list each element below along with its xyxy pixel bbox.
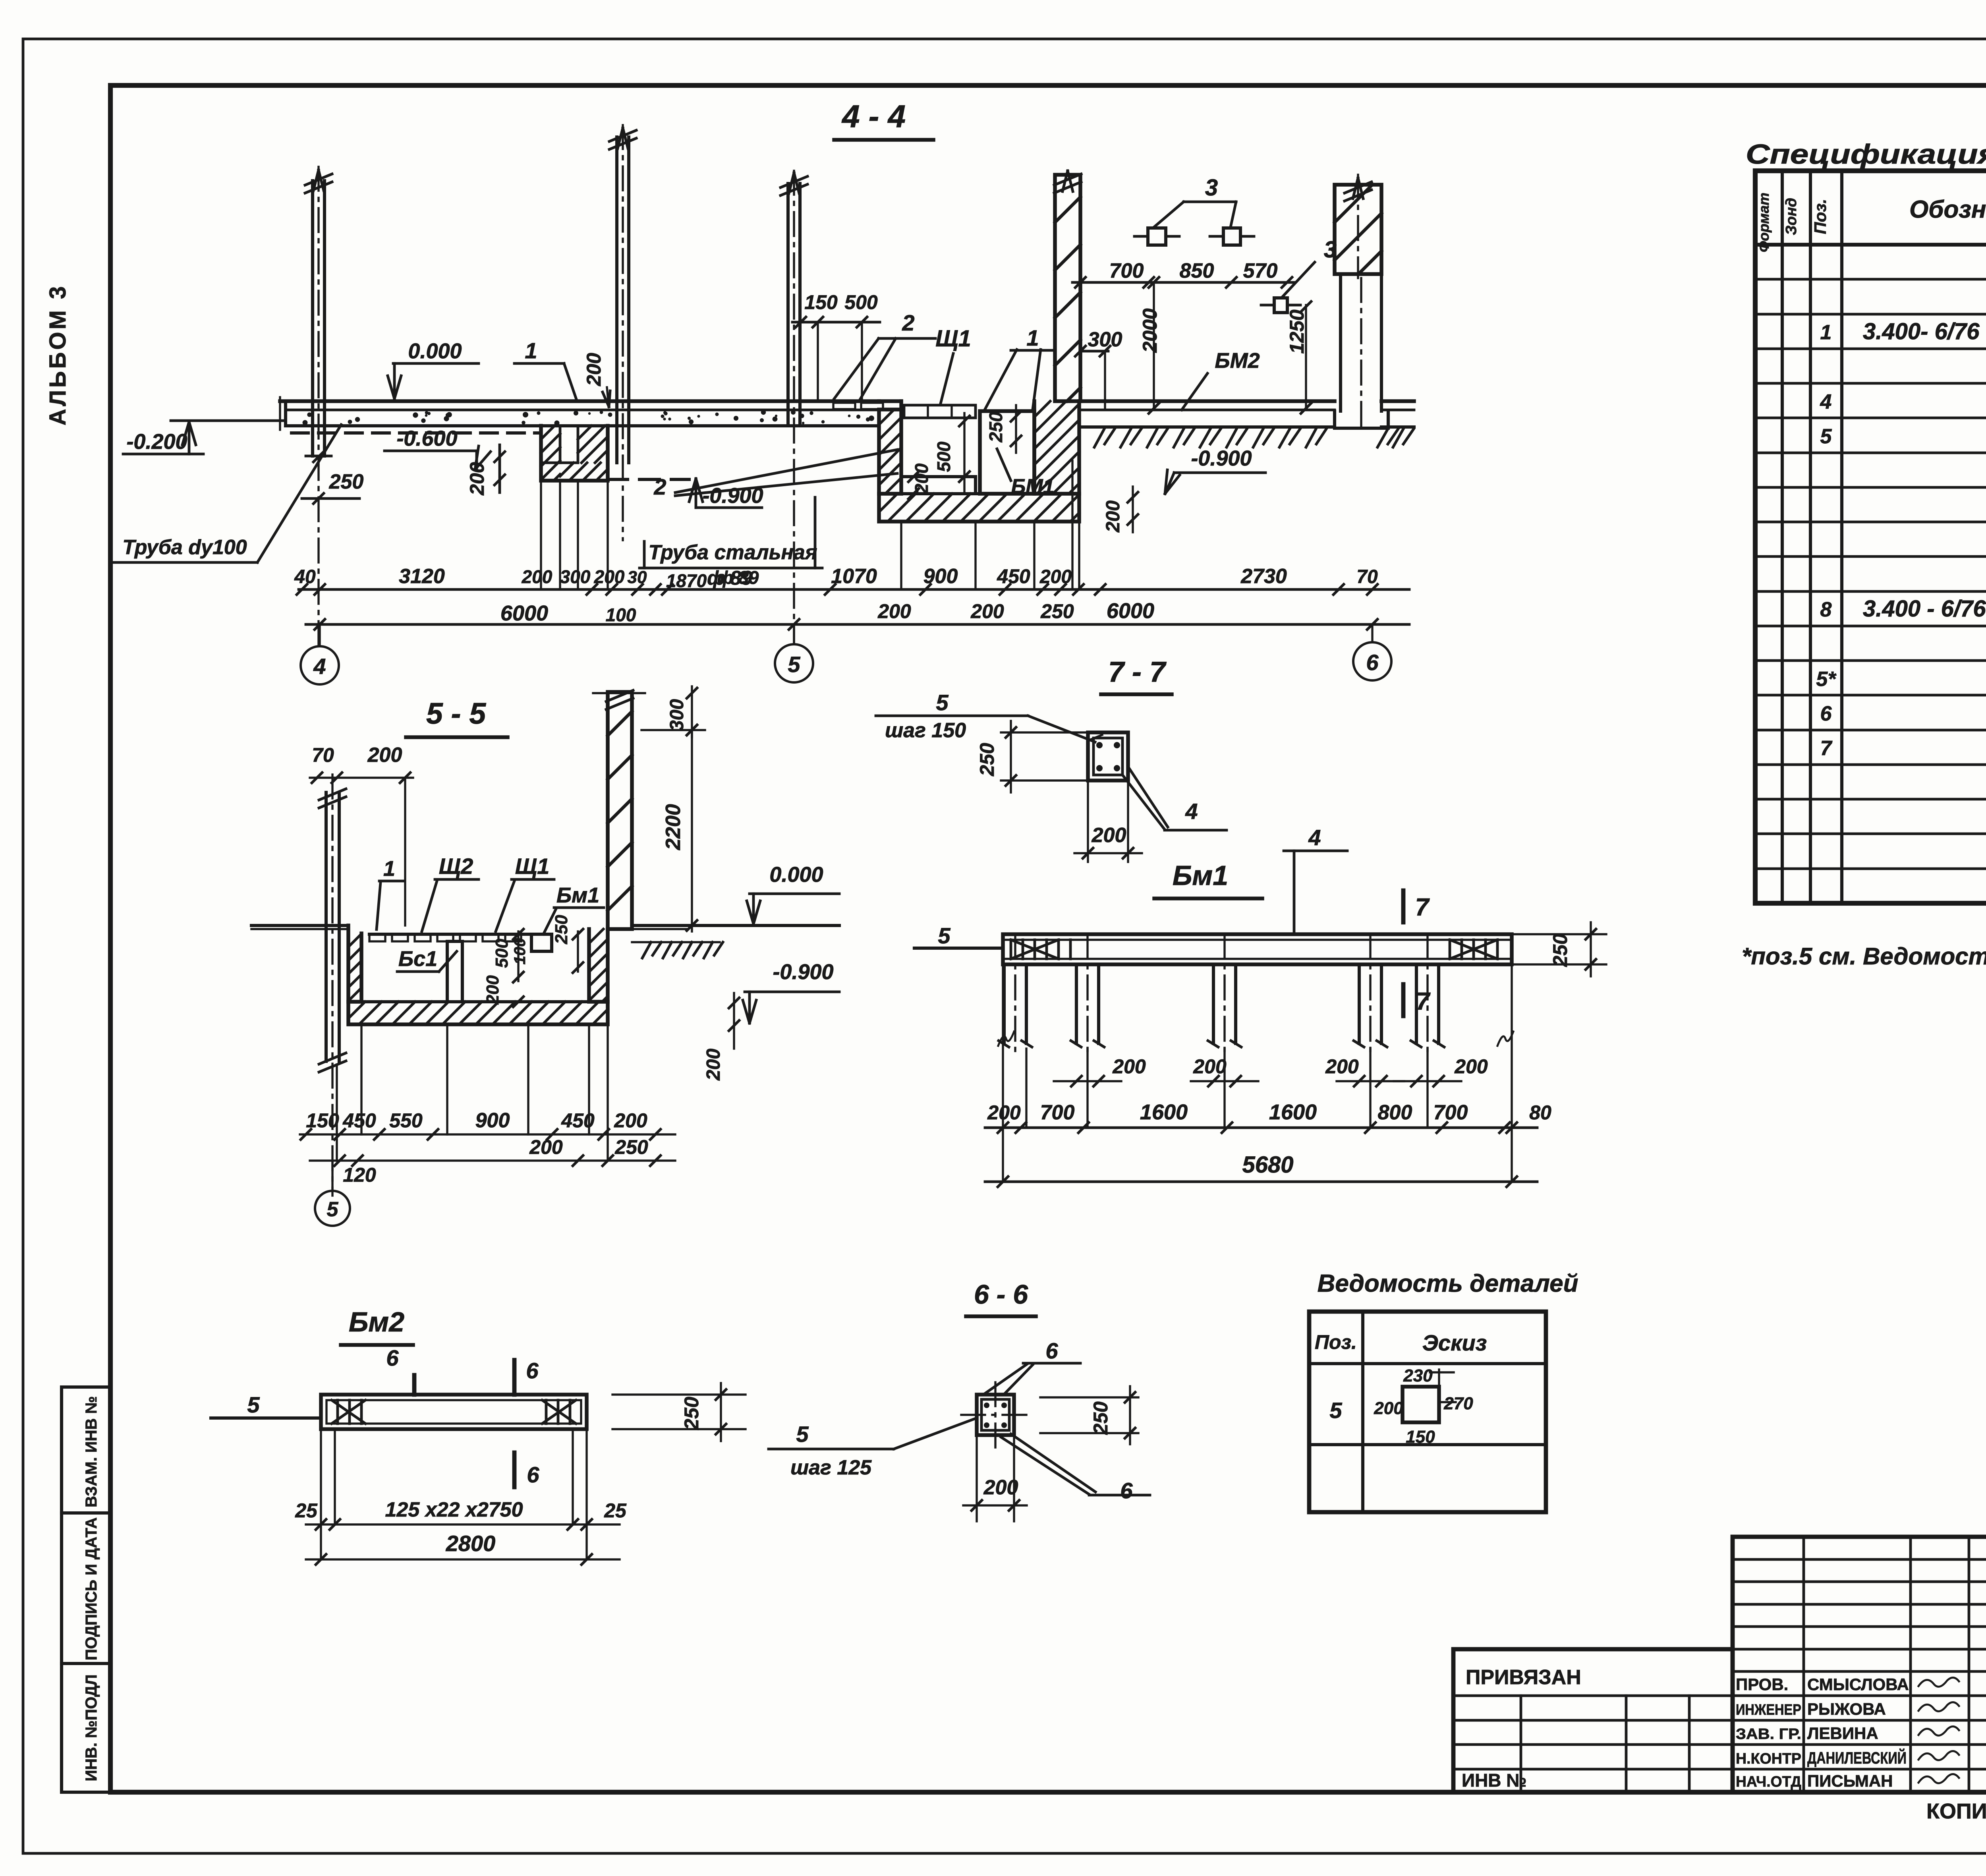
svg-text:150: 150 xyxy=(1406,1427,1435,1447)
floor slab bottom line (right room) xyxy=(1079,425,1335,429)
floor slab surface line (left) xyxy=(286,409,879,412)
svg-text:ПОДПИСЬ И ДАТА: ПОДПИСЬ И ДАТА xyxy=(83,1517,100,1660)
svg-text:АЛЬБОМ 3: АЛЬБОМ 3 xyxy=(45,284,71,425)
extension line right room xyxy=(1071,461,1073,589)
svg-text:8: 8 xyxy=(1820,598,1832,621)
svg-text:200: 200 xyxy=(466,462,488,496)
svg-text:0.000: 0.000 xyxy=(408,339,462,363)
foundation pit 1 hatch right xyxy=(578,426,591,439)
foundation pit 1 hatch bottom xyxy=(560,463,574,476)
stirrup box 7-7 rebar dots xyxy=(1096,742,1103,748)
svg-text:270: 270 xyxy=(1443,1394,1473,1413)
svg-text:ф 89: ф 89 xyxy=(717,567,759,588)
section mark 6 top second xyxy=(512,1360,517,1395)
svg-text:ДАНИЛЕВСКИЙ: ДАНИЛЕВСКИЙ xyxy=(1807,1748,1907,1767)
svg-text:100: 100 xyxy=(511,938,529,965)
parts list header line xyxy=(1309,1362,1546,1365)
signature squiggle 4 xyxy=(1918,1751,1959,1760)
right wall upper hatched part xyxy=(1335,185,1381,274)
svg-text:-0.200: -0.200 xyxy=(126,430,187,454)
beam BM1 anchor leg 4 xyxy=(1358,964,1361,1043)
svg-text:850: 850 xyxy=(1180,259,1214,282)
svg-text:6: 6 xyxy=(386,1345,399,1370)
svg-text:1600: 1600 xyxy=(1140,1100,1188,1124)
svg-text:200: 200 xyxy=(1374,1399,1403,1418)
svg-text:Труба стальная: Труба стальная xyxy=(649,541,817,564)
underground level -0.600 dashed line xyxy=(292,431,541,435)
svg-text:250: 250 xyxy=(1040,600,1074,622)
svg-text:80: 80 xyxy=(1529,1101,1551,1124)
svg-text:2000: 2000 xyxy=(1139,308,1161,353)
svg-text:125 x22 x2750: 125 x22 x2750 xyxy=(385,1498,523,1521)
svg-text:200: 200 xyxy=(522,566,553,587)
section 5-5 right wall xyxy=(608,692,632,929)
svg-text:БМ1: БМ1 xyxy=(1011,475,1054,498)
svg-text:ИНВ. №ПОДЛ: ИНВ. №ПОДЛ xyxy=(83,1674,100,1781)
title block left section frame xyxy=(1453,1649,1733,1792)
svg-text:5: 5 xyxy=(788,652,800,677)
axis circle 4 xyxy=(301,646,339,684)
svg-text:200: 200 xyxy=(594,566,625,587)
stirrup box 6-6 outer xyxy=(977,1395,1014,1435)
section 5-5 pit bottom slab xyxy=(348,1002,608,1024)
svg-text:1: 1 xyxy=(383,857,395,881)
beam BM2 outline xyxy=(321,1395,587,1429)
svg-text:5: 5 xyxy=(247,1392,260,1417)
svg-text:5: 5 xyxy=(1329,1398,1342,1423)
axis extension to circle 6 xyxy=(1371,624,1373,642)
svg-text:СМЫСЛОВА: СМЫСЛОВА xyxy=(1807,1675,1909,1694)
column section 5-5 xyxy=(325,792,328,1061)
section mark 7 bottom xyxy=(1401,984,1406,1016)
BM1 main dim chain xyxy=(985,1126,1537,1129)
BM1 overall dim 5680 xyxy=(985,1180,1537,1183)
svg-text:КОПИРОВАЛ: КОРШУНОВА: КОПИРОВАЛ: КОРШУНОВА xyxy=(1926,1799,1986,1823)
svg-text:200: 200 xyxy=(367,744,402,767)
svg-text:2200: 2200 xyxy=(662,804,685,850)
svg-text:ИНВ №: ИНВ № xyxy=(1462,1770,1527,1791)
svg-text:200: 200 xyxy=(970,600,1004,622)
section 5-5 dim chain 1 xyxy=(300,1133,675,1135)
svg-text:570: 570 xyxy=(1243,259,1278,282)
svg-text:2: 2 xyxy=(902,310,914,335)
column axis 5 centerline xyxy=(793,171,795,643)
column axis 4 top arrow xyxy=(313,170,319,191)
title block signature rows xyxy=(1733,1694,1986,1697)
svg-text:6000: 6000 xyxy=(500,601,548,625)
specification table vertical lines xyxy=(1781,171,1784,903)
right wall axis arrow xyxy=(1353,178,1358,199)
svg-text:0.000: 0.000 xyxy=(769,863,823,887)
svg-text:300: 300 xyxy=(667,699,688,731)
svg-text:ПИСЬМАН: ПИСЬМАН xyxy=(1807,1772,1893,1790)
svg-text:4: 4 xyxy=(1820,390,1832,413)
svg-text:3120: 3120 xyxy=(399,565,445,588)
svg-text:25: 25 xyxy=(604,1499,627,1522)
beam BM1 anchor leg 5 xyxy=(1415,964,1418,1043)
svg-text:200: 200 xyxy=(911,463,932,494)
right wall footing xyxy=(1335,411,1388,428)
svg-text:6: 6 xyxy=(527,1462,539,1487)
svg-text:200: 200 xyxy=(1092,824,1126,847)
axis extension to circle 4 xyxy=(319,624,321,646)
title block central verticals xyxy=(1802,1537,1805,1792)
svg-text:250: 250 xyxy=(614,1136,648,1158)
signature squiggle 5 xyxy=(1918,1774,1959,1783)
svg-text:Бс1: Бс1 xyxy=(398,947,437,971)
svg-text:5: 5 xyxy=(327,1198,339,1221)
axis circle 6 xyxy=(1353,642,1391,680)
section cut line 5 on BM1 xyxy=(914,947,1003,950)
ground hatch right of pit (5-5) xyxy=(642,942,651,958)
section mark 7 top xyxy=(1401,891,1406,922)
svg-text:300: 300 xyxy=(560,566,591,587)
svg-text:200: 200 xyxy=(483,975,502,1005)
mid wall on axis between 5 and 6 xyxy=(1055,175,1080,401)
svg-text:Бм2: Бм2 xyxy=(349,1306,404,1337)
svg-text:900: 900 xyxy=(475,1109,510,1132)
svg-text:900: 900 xyxy=(923,565,958,588)
right wall lower part xyxy=(1339,274,1342,411)
extension lines under pit 1 xyxy=(540,481,542,589)
svg-text:6: 6 xyxy=(1120,1478,1133,1503)
svg-text:40: 40 xyxy=(294,566,316,587)
section cut line 5 on BM2 xyxy=(211,1416,321,1420)
column 2 centerline xyxy=(622,125,624,540)
section 5-5 pit left wall xyxy=(348,925,361,1002)
svg-text:5: 5 xyxy=(938,923,950,948)
svg-text:Поз.: Поз. xyxy=(1315,1331,1357,1353)
section 5-5 pit interior bottom xyxy=(361,1000,589,1003)
svg-text:200: 200 xyxy=(1454,1055,1488,1078)
beam BM1 anchor leg 1 xyxy=(1003,964,1006,1043)
svg-text:500: 500 xyxy=(933,441,954,472)
floor slab bottom line (left) xyxy=(286,424,879,427)
svg-text:250: 250 xyxy=(552,915,571,945)
axis circle 5 (section 5-5) xyxy=(331,1161,333,1191)
ground hatch under right room floor xyxy=(1094,429,1104,447)
section 5-5 inner wall Bs1 xyxy=(446,941,449,1002)
beam BM1 right end stirrups xyxy=(1449,940,1451,959)
svg-text:200: 200 xyxy=(987,1101,1021,1124)
section 5-5 ext lines down xyxy=(336,1065,338,1161)
signature squiggle 3 xyxy=(1918,1726,1959,1735)
svg-text:2730: 2730 xyxy=(1240,565,1287,588)
svg-text:шаг 125: шаг 125 xyxy=(790,1456,872,1479)
svg-text:70: 70 xyxy=(1356,566,1378,587)
svg-text:200: 200 xyxy=(1103,500,1124,533)
svg-text:30: 30 xyxy=(628,568,647,587)
section 4-4 dim chain line 1 xyxy=(299,588,1409,591)
beam BM1 inner top line xyxy=(1003,939,1512,941)
svg-text:ИНЖЕНЕР: ИНЖЕНЕР xyxy=(1736,1702,1801,1718)
svg-text:230: 230 xyxy=(1403,1366,1433,1385)
section 5-5 formwork row xyxy=(369,933,528,936)
beam BM1 anchor leg 3 xyxy=(1212,964,1215,1043)
svg-text:Поз.: Поз. xyxy=(1811,199,1830,234)
svg-text:150: 150 xyxy=(306,1109,339,1132)
svg-text:5 - 5: 5 - 5 xyxy=(426,697,486,730)
svg-text:6: 6 xyxy=(526,1358,539,1383)
svg-text:4: 4 xyxy=(1308,825,1321,850)
svg-text:100: 100 xyxy=(606,605,636,625)
column on axis 4 xyxy=(311,181,314,456)
svg-text:800: 800 xyxy=(1378,1101,1412,1124)
svg-text:450: 450 xyxy=(997,565,1030,587)
svg-text:5: 5 xyxy=(796,1422,809,1447)
floor slab top line (right room) xyxy=(1079,399,1335,403)
svg-text:6000: 6000 xyxy=(1107,599,1154,623)
specification table row lines xyxy=(1755,278,1986,281)
svg-text:5680: 5680 xyxy=(1242,1152,1293,1178)
parts list column divider xyxy=(1361,1312,1364,1512)
svg-text:6: 6 xyxy=(1820,702,1832,725)
svg-text:2800: 2800 xyxy=(446,1531,496,1556)
column axis 4 centerline xyxy=(317,167,319,647)
svg-text:6: 6 xyxy=(1045,1338,1058,1363)
specification table outer frame xyxy=(1755,171,1986,903)
svg-text:200: 200 xyxy=(529,1136,563,1158)
stirrup box 7-7 inner xyxy=(1093,738,1122,775)
beam BM1 inner bottom line xyxy=(1003,958,1512,960)
pit 2 left wall xyxy=(879,401,901,494)
svg-text:200: 200 xyxy=(1193,1055,1227,1078)
svg-text:ПРОВ.: ПРОВ. xyxy=(1736,1675,1788,1694)
parts list row line xyxy=(1309,1443,1546,1446)
section 5-5 floor line right xyxy=(632,924,839,927)
svg-text:250: 250 xyxy=(976,743,998,777)
svg-text:5*: 5* xyxy=(1816,668,1837,691)
section 5-5 dim chain 2 xyxy=(310,1159,675,1161)
svg-text:500: 500 xyxy=(492,939,512,968)
title block upper rows xyxy=(1733,1558,1986,1561)
svg-text:3.400 - 6/76: 3.400 - 6/76 xyxy=(1863,596,1986,622)
left stamp column frame xyxy=(62,1387,110,1792)
svg-text:700: 700 xyxy=(1433,1101,1468,1124)
svg-text:200: 200 xyxy=(1325,1055,1359,1078)
svg-text:200: 200 xyxy=(583,353,605,386)
BM2 dim chain 1 xyxy=(306,1523,620,1525)
pit 2 left wall top edge xyxy=(879,399,901,403)
beam BM1 cross-section in pit 2 xyxy=(980,411,1034,494)
section mark 6 bottom xyxy=(512,1453,517,1487)
BM2 dim chain 2 xyxy=(306,1558,620,1560)
svg-text:Бм1: Бм1 xyxy=(1173,860,1228,891)
svg-text:БМ2: БМ2 xyxy=(1215,349,1260,373)
svg-text:Щ1: Щ1 xyxy=(935,326,971,352)
left stamp divider 1 xyxy=(62,1511,110,1515)
svg-text:250: 250 xyxy=(680,1397,703,1430)
svg-text:*поз.5 см. Ведомость деталей н: *поз.5 см. Ведомость деталей на данном л… xyxy=(1742,943,1986,970)
svg-text:1: 1 xyxy=(1820,321,1832,344)
svg-text:ЗАВ. ГР.: ЗАВ. ГР. xyxy=(1736,1726,1801,1743)
embedded plate 3 (third) xyxy=(1274,298,1287,313)
svg-text:Зонд: Зонд xyxy=(1783,198,1800,235)
svg-text:4 - 4: 4 - 4 xyxy=(841,99,906,134)
stirrup box 7-7 corner mark xyxy=(1090,735,1102,740)
extension lines under pit 2 xyxy=(900,522,902,589)
svg-text:Ведомость деталей: Ведомость деталей xyxy=(1318,1270,1578,1297)
svg-text:2: 2 xyxy=(653,474,666,499)
parts list sketch rectangle xyxy=(1403,1387,1439,1422)
column axis 5 (section 5-5) centerline xyxy=(331,775,333,1196)
svg-text:300: 300 xyxy=(1088,328,1122,351)
axis extension to circle 5 xyxy=(793,624,795,644)
stirrup box 6-6 centerlines xyxy=(994,1382,996,1450)
svg-text:7: 7 xyxy=(1820,737,1833,760)
beam BM2 inner rect xyxy=(326,1400,581,1424)
svg-text:Щ2: Щ2 xyxy=(439,854,473,879)
formwork joint marks on floor xyxy=(833,403,855,409)
svg-text:500: 500 xyxy=(844,291,878,313)
BM1 ext lines with breaks xyxy=(1025,1049,1027,1128)
label 2 lower leaders xyxy=(675,450,897,493)
embedded plate 3 (second) xyxy=(1223,228,1240,245)
ground edge lines (5-5) xyxy=(632,941,720,943)
svg-text:Н.КОНТР: Н.КОНТР xyxy=(1736,1750,1801,1767)
steel pipe axis dash line xyxy=(608,478,689,481)
pit 2 inner ledge xyxy=(901,475,976,478)
svg-text:РЫЖОВА: РЫЖОВА xyxy=(1807,1700,1886,1718)
beam BM1 left end stirrups xyxy=(1010,940,1012,959)
svg-text:Бм1: Бм1 xyxy=(556,883,599,907)
svg-text:шаг 150: шаг 150 xyxy=(885,719,966,742)
embedded plate 3 (first) xyxy=(1148,228,1166,245)
beam BM2 right end stirrups xyxy=(545,1400,548,1424)
pit 2 right wall xyxy=(1034,401,1079,494)
svg-text:450: 450 xyxy=(561,1109,595,1132)
floor slab concrete dots (left) xyxy=(663,411,667,414)
svg-text:Труба dу100: Труба dу100 xyxy=(122,536,247,559)
svg-text:450: 450 xyxy=(342,1109,376,1132)
beam BM1 outline xyxy=(1003,934,1512,964)
svg-text:120: 120 xyxy=(343,1164,376,1186)
floor slab surface line (right room) xyxy=(1079,409,1335,412)
svg-text:1: 1 xyxy=(1026,325,1039,350)
stirrup box 6-6 rebar dots xyxy=(984,1403,989,1408)
mid wall axis arrow xyxy=(1063,171,1068,191)
section 5-5 floor line left xyxy=(251,924,348,927)
svg-text:7: 7 xyxy=(1416,988,1431,1015)
svg-text:6 - 6: 6 - 6 xyxy=(974,1279,1028,1310)
svg-text:ВЗАМ. ИНВ №: ВЗАМ. ИНВ № xyxy=(83,1396,100,1507)
svg-text:250: 250 xyxy=(1090,1401,1112,1435)
svg-text:1250: 1250 xyxy=(1286,309,1308,354)
svg-text:200: 200 xyxy=(1112,1055,1146,1078)
parts list table frame xyxy=(1309,1312,1546,1512)
svg-text:70: 70 xyxy=(312,744,334,766)
signature squiggle 2 xyxy=(1918,1702,1959,1711)
stirrup box 6-6 inner xyxy=(981,1399,1009,1430)
foundation pit 1 step lines xyxy=(559,426,562,463)
title block left verticals xyxy=(1520,1696,1522,1792)
svg-text:7 - 7: 7 - 7 xyxy=(1108,656,1167,688)
ground line left of building xyxy=(171,419,286,422)
column 2 top arrow xyxy=(618,128,623,149)
svg-text:200: 200 xyxy=(1039,566,1072,587)
svg-text:-0.900: -0.900 xyxy=(773,960,833,984)
svg-text:НАЧ.ОТД: НАЧ.ОТД xyxy=(1736,1774,1801,1790)
svg-text:7: 7 xyxy=(1415,894,1430,921)
svg-text:200: 200 xyxy=(877,600,911,622)
svg-text:1600: 1600 xyxy=(1269,1100,1317,1124)
svg-text:1: 1 xyxy=(525,338,537,363)
foundation pit 1 outline xyxy=(541,426,608,481)
svg-text:Обозначение: Обозначение xyxy=(1909,196,1986,223)
stirrup box 7-7 outer xyxy=(1088,732,1128,781)
floor slab top line (left) xyxy=(280,399,879,403)
svg-text:250: 250 xyxy=(1549,933,1571,967)
svg-text:700: 700 xyxy=(1040,1101,1075,1124)
section 5-5 pit right wall xyxy=(589,929,608,1002)
svg-text:150: 150 xyxy=(804,291,838,313)
BM2 ext lines xyxy=(320,1431,322,1559)
svg-text:ПРИВЯЗАН: ПРИВЯЗАН xyxy=(1466,1666,1581,1689)
title block left row lines xyxy=(1453,1694,1733,1697)
column on axis 5 xyxy=(786,184,790,426)
svg-text:Формат: Формат xyxy=(1756,193,1772,252)
specification table header bottom xyxy=(1755,243,1986,247)
title block central table frame xyxy=(1733,1537,1986,1792)
svg-text:3.400- 6/76: 3.400- 6/76 xyxy=(1863,319,1980,344)
foundation pit 1 hatch left xyxy=(541,426,554,439)
svg-text:700: 700 xyxy=(1109,259,1144,282)
signature squiggle 1 xyxy=(1918,1677,1959,1687)
svg-text:-0.600: -0.600 xyxy=(396,427,457,450)
axis circle 5 xyxy=(775,644,813,682)
svg-text:6: 6 xyxy=(1366,650,1379,675)
column 2 (axis B) xyxy=(615,137,618,463)
svg-text:250: 250 xyxy=(329,470,364,493)
left stamp divider 2 xyxy=(62,1662,110,1665)
svg-text:Эскиз: Эскиз xyxy=(1422,1330,1487,1355)
svg-text:250: 250 xyxy=(985,412,1006,442)
floor slab left edge xyxy=(284,401,287,426)
svg-text:4: 4 xyxy=(313,654,326,679)
svg-text:5: 5 xyxy=(1820,425,1832,448)
section 4-4 dim chain line 2 xyxy=(306,623,1409,626)
svg-text:Щ1: Щ1 xyxy=(515,854,550,879)
pit 2 bottom slab xyxy=(879,494,1079,522)
svg-text:ЛЕВИНА: ЛЕВИНА xyxy=(1807,1724,1878,1743)
svg-text:Спецификация к монолитным балк: Спецификация к монолитным балкам Бм1,Бм2 xyxy=(1746,139,1986,170)
svg-text:200: 200 xyxy=(614,1109,647,1132)
svg-text:25: 25 xyxy=(295,1499,318,1522)
pit 2 formwork panel Sch1 xyxy=(904,405,976,418)
svg-text:3: 3 xyxy=(1205,175,1218,201)
floor slab right outside wall xyxy=(1381,399,1414,403)
beam BM2 left end stirrups xyxy=(336,1400,339,1424)
svg-text:200: 200 xyxy=(703,1049,724,1081)
svg-text:200: 200 xyxy=(983,1476,1018,1499)
svg-text:550: 550 xyxy=(389,1109,423,1132)
svg-text:-0.900: -0.900 xyxy=(1191,446,1252,470)
svg-text:4: 4 xyxy=(1185,799,1198,824)
column axis 5 top arrow xyxy=(789,173,794,193)
svg-text:1870: 1870 xyxy=(666,570,707,591)
svg-text:1070: 1070 xyxy=(831,565,877,588)
ground hatch right of wall xyxy=(1377,429,1388,447)
beam BM1 section in 5-5 xyxy=(531,934,552,951)
svg-text:5: 5 xyxy=(936,690,949,715)
beam BM1 anchor leg 2 xyxy=(1075,964,1078,1043)
right wall break xyxy=(1335,274,1381,274)
